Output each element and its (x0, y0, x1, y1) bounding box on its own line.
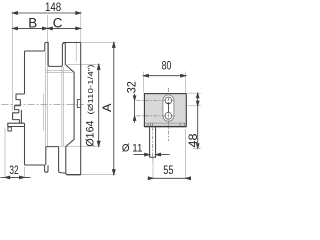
svg-text:Ø 11: Ø 11 (122, 143, 142, 155)
svg-text:32: 32 (124, 81, 138, 93)
svg-text:Ø164: Ø164 (85, 121, 97, 147)
svg-text:148: 148 (45, 0, 61, 14)
svg-text:C: C (53, 15, 63, 30)
svg-text:B: B (28, 15, 37, 30)
svg-text:A: A (100, 103, 114, 112)
svg-text:55: 55 (163, 163, 173, 177)
svg-text:32: 32 (9, 163, 18, 177)
svg-text:48: 48 (186, 133, 200, 147)
svg-text:(Ø110-1/4"): (Ø110-1/4") (86, 64, 95, 115)
svg-text:80: 80 (162, 58, 172, 72)
